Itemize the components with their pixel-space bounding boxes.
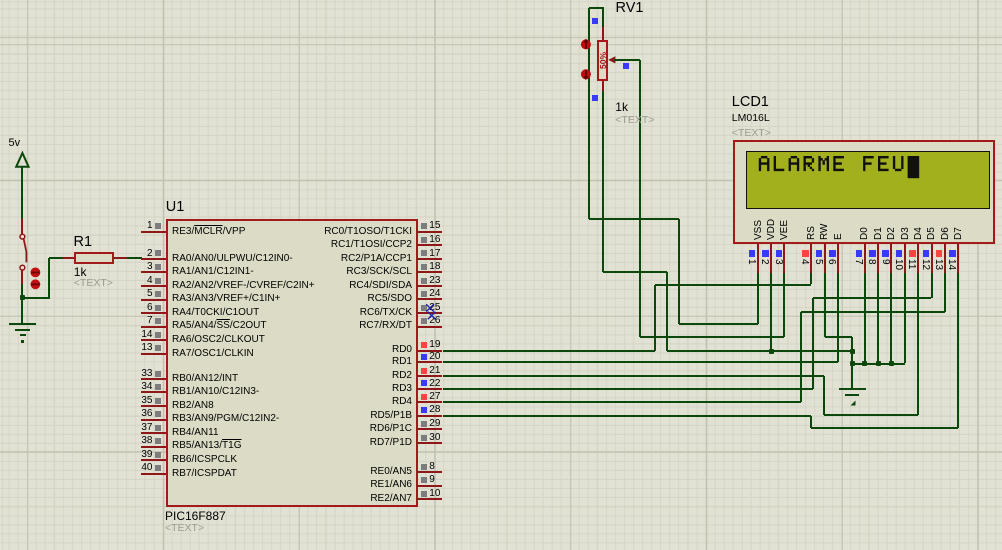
LCD pin 14 state square bbox=[949, 250, 956, 257]
pin 7 state square bbox=[155, 318, 161, 324]
pin 38 number bbox=[141, 435, 152, 446]
LCD pin 4 RS stub bbox=[810, 244, 812, 273]
pin 21 number bbox=[429, 365, 440, 376]
ground right bar1 bbox=[839, 388, 866, 390]
wire R1 branch up bbox=[48, 258, 50, 298]
pin 30 number bbox=[429, 432, 440, 443]
LCD pin 12 number bbox=[920, 259, 930, 270]
pin 37 number bbox=[141, 422, 152, 433]
label LCD1 text bbox=[732, 128, 771, 140]
wire ground stem bbox=[851, 337, 853, 389]
wire wiper bbox=[614, 59, 640, 61]
pin 3 stub bbox=[141, 271, 166, 273]
ground left bar2 bbox=[15, 329, 30, 331]
pin 35 label RB2/AN8 bbox=[172, 400, 214, 411]
pin 36 number bbox=[141, 408, 152, 419]
pin 2 label RA0/AN0/ULPWU/C12IN0- bbox=[172, 253, 293, 264]
LCD pin 9 D2 stub bbox=[890, 244, 892, 273]
LCD pin 11 D4 stub bbox=[917, 244, 919, 273]
LCD pin 13 state square bbox=[936, 250, 943, 257]
LCD pin 11 name label bbox=[914, 227, 924, 240]
wire VEE down bbox=[783, 273, 785, 337]
pin 27 state square bbox=[421, 394, 427, 400]
pin 2 number bbox=[147, 248, 153, 259]
pin 9 label RE1/AN6 bbox=[370, 479, 412, 490]
wire RD2 to D4 bbox=[824, 414, 918, 416]
LCD screen bbox=[746, 151, 990, 210]
LCD pin 7 number bbox=[853, 259, 863, 265]
pin 28 stub bbox=[417, 415, 442, 417]
pin 30 state square bbox=[421, 435, 427, 441]
wire RD0 bbox=[443, 350, 655, 352]
wire RV1 top link bbox=[589, 7, 603, 9]
wire pot top net down bbox=[678, 219, 680, 324]
LCD pin 14 name label bbox=[954, 227, 964, 240]
pin 24 number bbox=[429, 288, 440, 299]
wire pot bottom to right bbox=[603, 271, 667, 273]
LCD pin 10 name label bbox=[901, 227, 911, 240]
pin 29 label RD6/P1C bbox=[370, 423, 412, 434]
label U1 bbox=[166, 200, 185, 216]
LCD pin 10 state square bbox=[896, 250, 903, 257]
pin 22 stub bbox=[417, 388, 442, 390]
LCD pin 10 number bbox=[893, 259, 903, 270]
LCD pin 5 number bbox=[813, 259, 823, 265]
ground left bar1 bbox=[9, 323, 36, 325]
LCD pin 8 state square bbox=[869, 250, 876, 257]
pin 34 state square bbox=[155, 384, 161, 390]
label LM016L bbox=[732, 113, 770, 125]
PIC16F887 U1 body bbox=[166, 219, 418, 507]
pin 8 state square bbox=[421, 464, 427, 470]
label RV1 bbox=[616, 1, 644, 17]
LCD pin 8 number bbox=[866, 259, 876, 265]
LCD pin 7 D0 stub bbox=[864, 244, 866, 273]
pin 30 label RD7/P1D bbox=[370, 437, 412, 448]
pin 21 state square bbox=[421, 368, 427, 374]
pin 13 state square bbox=[155, 345, 161, 351]
pin 6 number bbox=[147, 302, 153, 313]
pin 29 stub bbox=[417, 428, 442, 430]
pin 15 label RC0/T1OSO/T1CKI bbox=[324, 226, 412, 237]
pin 36 state square bbox=[155, 411, 161, 417]
pin 17 number bbox=[429, 248, 440, 259]
pin 14 number bbox=[141, 329, 152, 340]
pin 38 stub bbox=[141, 446, 166, 448]
pin 15 number bbox=[429, 220, 440, 231]
junction D0 bbox=[862, 361, 867, 366]
LCD pin 1 state square bbox=[749, 250, 756, 257]
pin 36 stub bbox=[141, 419, 166, 421]
LCD pin 5 name label bbox=[820, 224, 830, 240]
wire 5v arrow to switch bbox=[21, 167, 23, 219]
pin 20 stub bbox=[417, 361, 442, 363]
pin 5 stub bbox=[141, 299, 166, 301]
pin 26 number bbox=[429, 315, 440, 326]
label RV1 text bbox=[615, 115, 654, 127]
pin 22 label RD3 bbox=[392, 383, 412, 394]
pin 29 number bbox=[429, 418, 440, 429]
pin 24 stub bbox=[417, 298, 442, 300]
ground left dot bbox=[21, 340, 24, 343]
wire RD5 down bbox=[810, 416, 812, 429]
pin 18 label RC3/SCK/SCL bbox=[346, 266, 412, 277]
LCD pin 3 number bbox=[773, 259, 783, 265]
LCD pin 6 state square bbox=[829, 250, 836, 257]
LCD pin 4 number bbox=[799, 259, 809, 265]
wire D6 down bbox=[944, 273, 946, 312]
wire RW to ground bbox=[825, 336, 853, 338]
LCD pin 13 number bbox=[933, 259, 943, 270]
pin 29 state square bbox=[421, 421, 427, 427]
pin 27 stub bbox=[417, 401, 442, 403]
pin 7 stub bbox=[141, 326, 166, 328]
pin 39 number bbox=[141, 449, 152, 460]
LCD display text ALARME FEU bbox=[0, 0, 1002, 260]
pin 40 stub bbox=[141, 473, 166, 475]
pin 5 state square bbox=[155, 291, 161, 297]
pin 7 number bbox=[147, 315, 153, 326]
LCD pin 11 number bbox=[906, 259, 916, 269]
pin 26 stub bbox=[417, 326, 442, 328]
LCD pin 7 name label bbox=[860, 227, 870, 240]
analysis marker X pins 25 26 bbox=[424, 302, 440, 322]
pin 25 stub bbox=[417, 312, 442, 314]
pin 21 stub bbox=[417, 375, 442, 377]
wire ground bus bbox=[667, 350, 852, 352]
pin 1 label RE3/MCLR/VPP bbox=[172, 226, 245, 237]
RV1 top state square bbox=[592, 18, 598, 24]
pin 34 number bbox=[141, 381, 152, 392]
pin 18 number bbox=[429, 261, 440, 272]
ground left bar3 bbox=[20, 334, 25, 336]
LCD pin 7 state square bbox=[856, 250, 863, 257]
resistor R1 right lead bbox=[114, 257, 127, 259]
wire E down bbox=[837, 273, 839, 363]
pin 27 label RD4 bbox=[392, 396, 412, 407]
wire junction to ground bbox=[21, 299, 23, 324]
pin 40 number bbox=[141, 462, 152, 473]
pin 14 label RA6/OSC2/CLKOUT bbox=[172, 334, 265, 345]
pin 33 label RB0/AN12/INT bbox=[172, 373, 238, 384]
wire wiper down bbox=[639, 60, 641, 337]
wire RD2 down bbox=[823, 376, 825, 415]
pin 33 state square bbox=[155, 371, 161, 377]
wire RD4 to D6 bbox=[801, 311, 945, 313]
junction R1 switch bbox=[20, 295, 25, 300]
pin 28 label RD5/P1B bbox=[370, 410, 412, 421]
pin 9 state square bbox=[421, 477, 427, 483]
pin 19 stub bbox=[417, 350, 442, 352]
wire RD2 bbox=[443, 375, 825, 377]
label R1 bbox=[74, 235, 93, 251]
pin 20 number bbox=[429, 351, 440, 362]
ground right arrow mark bbox=[848, 399, 858, 407]
pin 8 stub bbox=[417, 471, 442, 473]
wire VSS left bbox=[679, 323, 758, 325]
wire R1 to pin2 stub bbox=[127, 257, 142, 259]
pin 28 number bbox=[429, 404, 440, 415]
pin 4 stub bbox=[141, 285, 166, 287]
pin 10 stub bbox=[417, 498, 442, 500]
pin 5 number bbox=[147, 288, 153, 299]
pin 39 stub bbox=[141, 459, 166, 461]
pot top pin bbox=[602, 27, 604, 41]
pin 40 label RB7/ICSPDAT bbox=[172, 468, 237, 479]
LCD pin 6 E stub bbox=[837, 244, 839, 273]
pin 19 label RD0 bbox=[392, 344, 412, 355]
wire switch to junction bbox=[21, 284, 23, 299]
switch bottom pin bbox=[21, 270, 23, 284]
pin 35 stub bbox=[141, 405, 166, 407]
LCD LM016L body bbox=[733, 140, 995, 244]
LCD pin 13 name label bbox=[941, 227, 951, 240]
pin 27 number bbox=[429, 391, 440, 402]
wire D1 down bbox=[877, 273, 879, 364]
wire D3 down bbox=[904, 273, 906, 364]
pin 24 label RC5/SDO bbox=[368, 293, 412, 304]
junction ground bus D bbox=[850, 361, 855, 366]
ground right bar2 bbox=[845, 394, 859, 396]
pin 38 label RB5/AN13/T1G bbox=[172, 440, 241, 451]
pin 1 state square bbox=[155, 223, 161, 229]
wire D4 down bbox=[917, 273, 919, 416]
RV1 bottom state square bbox=[592, 95, 598, 101]
junction D2 bbox=[889, 361, 894, 366]
pin 37 stub bbox=[141, 432, 166, 434]
junction ground stem top bbox=[850, 349, 855, 354]
wire RS left bbox=[655, 284, 811, 286]
pin 13 label RA7/OSC1/CLKIN bbox=[172, 348, 254, 359]
LCD pin 5 state square bbox=[816, 250, 823, 257]
pin 40 state square bbox=[155, 465, 161, 471]
LCD pin 1 VSS stub bbox=[757, 244, 759, 273]
pin 2 stub bbox=[141, 258, 166, 260]
wire RS down bbox=[810, 273, 812, 285]
pin 13 stub bbox=[141, 353, 166, 355]
wire RV1 top down bbox=[588, 8, 590, 219]
LCD pin 8 D1 stub bbox=[877, 244, 879, 273]
pin 23 stub bbox=[417, 285, 442, 287]
pin 18 stub bbox=[417, 271, 442, 273]
pin 3 number bbox=[147, 261, 153, 272]
LCD pin 9 name label bbox=[887, 227, 897, 240]
wire D0 down bbox=[864, 273, 866, 364]
pin 1 number bbox=[147, 220, 153, 231]
resistor R1 body bbox=[74, 252, 114, 264]
pin 10 label RE2/AN7 bbox=[370, 493, 412, 504]
pin 16 number bbox=[429, 234, 440, 245]
pin 22 state square bbox=[421, 380, 427, 386]
pin 33 number bbox=[141, 368, 152, 379]
label PIC16F887 bbox=[165, 510, 226, 523]
wire pot bottom down bbox=[602, 91, 604, 272]
pin 14 state square bbox=[155, 332, 161, 338]
pin 20 state square bbox=[421, 354, 427, 360]
wire VSS down bbox=[757, 273, 759, 324]
wire RD5 bbox=[443, 415, 811, 417]
pin 33 stub bbox=[141, 378, 166, 380]
pin 36 label RB3/AN9/PGM/C12IN2- bbox=[172, 413, 279, 424]
LCD pin 6 number bbox=[826, 259, 836, 265]
LCD pin 2 VDD stub bbox=[770, 244, 772, 273]
LCD pin 4 name label bbox=[807, 226, 817, 240]
wire RW down bbox=[824, 273, 826, 337]
wire RD3 bbox=[443, 388, 813, 390]
switch top pin bbox=[21, 219, 23, 234]
LCD pin 8 name label bbox=[874, 227, 884, 240]
LCD pin 2 name label bbox=[767, 219, 777, 240]
LCD pin 6 name label bbox=[834, 233, 844, 240]
LCD pin 1 number bbox=[746, 259, 756, 265]
pin 16 label RC1/T1OSI/CCP2 bbox=[331, 239, 412, 250]
LCD pin 14 number bbox=[946, 259, 956, 270]
wire RD4 bbox=[443, 401, 802, 403]
LCD pin 11 state square bbox=[909, 250, 916, 257]
label U1 text bbox=[165, 523, 204, 535]
pin 20 label RD1 bbox=[392, 356, 412, 367]
label LCD1 bbox=[732, 95, 769, 111]
pin 9 number bbox=[429, 474, 435, 485]
pin 2 state square bbox=[155, 250, 161, 256]
pin 4 state square bbox=[155, 278, 161, 284]
pin 13 number bbox=[141, 342, 152, 353]
pin 34 label RB1/AN10/C12IN3- bbox=[172, 386, 259, 397]
label RV1 50% bbox=[599, 51, 607, 68]
LCD pin 3 name label bbox=[780, 220, 790, 240]
wire D7 down bbox=[957, 273, 959, 429]
wire pot top net horiz bbox=[589, 218, 679, 220]
pin 4 number bbox=[147, 275, 153, 286]
pin 19 number bbox=[429, 339, 440, 350]
pin 39 label RB6/ICSPCLK bbox=[172, 454, 237, 465]
label RV1 value 1k bbox=[615, 101, 628, 114]
potentiometer RV1 body bbox=[597, 40, 608, 80]
pin 10 state square bbox=[421, 491, 427, 497]
junction VDD ground bbox=[769, 349, 774, 354]
wire D5 down bbox=[931, 273, 933, 299]
pin 25 number bbox=[429, 302, 440, 313]
pin 39 state square bbox=[155, 452, 161, 458]
pin 30 stub bbox=[417, 442, 442, 444]
pin 17 state square bbox=[421, 250, 427, 256]
label 5v bbox=[9, 137, 21, 149]
RV1 wiper state square bbox=[623, 63, 629, 69]
pin 10 number bbox=[429, 488, 440, 499]
LCD pin 5 RW stub bbox=[824, 244, 826, 273]
pot bottom pin bbox=[602, 81, 604, 91]
pin 15 state square bbox=[421, 223, 427, 229]
pin 35 number bbox=[141, 395, 152, 406]
RV1 toggle actuators bbox=[578, 37, 596, 83]
wire junction to R1 branch bbox=[21, 297, 48, 299]
LCD pin 9 number bbox=[880, 259, 890, 265]
LCD pin 12 name label bbox=[927, 227, 937, 240]
pin 19 state square bbox=[421, 342, 427, 348]
pin 14 stub bbox=[141, 339, 166, 341]
wire to R1 left lead bbox=[49, 257, 64, 259]
pin 16 stub bbox=[417, 244, 442, 246]
LCD pin 4 state square bbox=[802, 250, 809, 257]
wire RS to RD0 bbox=[654, 285, 656, 351]
wire RD5 to D7 bbox=[811, 427, 959, 429]
label R1 value 1k bbox=[74, 266, 87, 279]
wire RD4 up bbox=[800, 312, 802, 403]
pin 4 label RA2/AN2/VREF-/CVREF/C2IN+ bbox=[172, 280, 315, 291]
pin 21 label RD2 bbox=[392, 370, 412, 381]
pin 1 stub bbox=[141, 231, 166, 233]
LCD pin 2 state square bbox=[762, 250, 769, 257]
LCD pin 10 D3 stub bbox=[904, 244, 906, 273]
pin 18 state square bbox=[421, 264, 427, 270]
wire pot bottom corner down bbox=[666, 272, 668, 351]
pin 35 state square bbox=[155, 398, 161, 404]
pin 37 label RB4/AN11 bbox=[172, 427, 219, 438]
pin 6 label RA4/T0CKI/C1OUT bbox=[172, 307, 259, 318]
wire D2 down bbox=[890, 273, 892, 364]
pin 37 state square bbox=[155, 425, 161, 431]
pin 34 stub bbox=[141, 391, 166, 393]
pin 3 label RA1/AN1/C12IN1- bbox=[172, 266, 254, 277]
pot wiper arrow bbox=[606, 53, 622, 67]
resistor R1 left lead bbox=[63, 257, 74, 259]
wire pot top bbox=[602, 8, 604, 27]
LCD pin 1 name label bbox=[754, 220, 764, 240]
junction D1 bbox=[876, 361, 881, 366]
pin 22 number bbox=[429, 378, 440, 389]
pin 16 state square bbox=[421, 237, 427, 243]
pin 9 stub bbox=[417, 485, 442, 487]
LCD pin 9 state square bbox=[882, 250, 889, 257]
LCD pin 3 VEE stub bbox=[783, 244, 785, 273]
pin 24 state square bbox=[421, 291, 427, 297]
pin 6 state square bbox=[155, 305, 161, 311]
pin 7 label RA5/AN4/SS/C2OUT bbox=[172, 320, 266, 331]
LCD pin 14 D7 stub bbox=[957, 244, 959, 273]
wire RD3 up bbox=[812, 298, 814, 388]
power terminal 5v arrow and switch bbox=[0, 130, 60, 290]
pin 8 label RE0/AN5 bbox=[370, 466, 412, 477]
pin 15 stub bbox=[417, 231, 442, 233]
pin 26 state square bbox=[421, 318, 427, 324]
pin 23 state square bbox=[421, 278, 427, 284]
pin 6 stub bbox=[141, 312, 166, 314]
wire VDD down bbox=[770, 273, 772, 351]
switch toggle actuators bbox=[28, 265, 44, 291]
LCD pin 2 number bbox=[759, 259, 769, 265]
LCD pin 3 state square bbox=[776, 250, 783, 257]
LCD pin 12 D5 stub bbox=[931, 244, 933, 273]
pin 25 label RC6/TX/CK bbox=[360, 307, 412, 318]
label R1 text bbox=[74, 278, 113, 290]
pin 26 label RC7/RX/DT bbox=[359, 320, 412, 331]
wire RD1 to E bbox=[443, 361, 838, 363]
pin 17 label RC2/P1A/CCP1 bbox=[341, 253, 412, 264]
pin 5 label RA3/AN3/VREF+/C1IN+ bbox=[172, 293, 280, 304]
pin 23 label RC4/SDI/SDA bbox=[349, 280, 412, 291]
pin 38 state square bbox=[155, 438, 161, 444]
pin 8 number bbox=[429, 461, 435, 472]
pin 23 number bbox=[429, 275, 440, 286]
pin 28 state square bbox=[421, 407, 427, 413]
wire wiper to VEE bbox=[640, 336, 784, 338]
wire RD3 to D5 bbox=[813, 297, 932, 299]
LCD pin 12 state square bbox=[923, 250, 930, 257]
wire D0-D3 bus bbox=[852, 363, 904, 365]
pin 3 state square bbox=[155, 264, 161, 270]
LCD pin 13 D6 stub bbox=[944, 244, 946, 273]
pin 25 state square bbox=[421, 305, 427, 311]
